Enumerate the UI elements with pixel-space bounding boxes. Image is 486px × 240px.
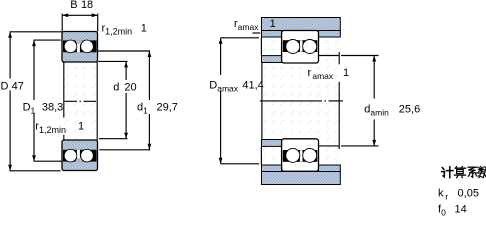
housing top bar	[262, 18, 341, 31]
svg-text:1: 1	[270, 18, 276, 30]
dimension D: line with arrows, gap for text	[9, 32, 11, 79]
ball row top	[64, 40, 77, 53]
dimension d1: extension lines	[97, 50, 150, 52]
shaft shoulder top left	[262, 56, 282, 63]
abutment gap boundary bottom left	[260, 146, 262, 165]
housing shoulder top left	[262, 31, 282, 38]
hatch field	[262, 37, 340, 165]
dimension D_amax: extension lines	[221, 37, 259, 39]
svg-text:f014: f014	[438, 203, 467, 216]
mounted cage bar bottom	[300, 150, 303, 161]
ball row bottom	[64, 149, 77, 162]
raceway gap top	[63, 40, 97, 52]
dimension d: line with arrows	[125, 61, 127, 80]
phantom shoulder line top right	[319, 55, 339, 57]
svg-text:47: 47	[12, 81, 24, 93]
svg-text:d129,7: d129,7	[137, 101, 178, 115]
bore line left	[63, 62, 65, 118]
svg-text:25,6: 25,6	[399, 103, 420, 115]
housing bottom bar	[262, 172, 341, 185]
mounted ball row top	[286, 40, 300, 54]
dimension D_amax: line with arrows	[220, 38, 222, 75]
dimension d_amin: extension lines	[341, 55, 379, 57]
bore line right	[96, 62, 98, 140]
mounted cage bar top	[300, 40, 303, 51]
shaft right end line	[338, 52, 340, 64]
raceway wedge bottom	[75, 157, 82, 161]
housing shoulder bottom left	[262, 165, 282, 172]
centerline right drawing	[260, 100, 322, 102]
dimension d: extension lines	[98, 60, 127, 62]
svg-text:D: D	[1, 81, 9, 93]
svg-text:D138,3: D138,3	[23, 101, 64, 115]
dimension d1: line with arrows	[148, 51, 150, 100]
svg-text:Damax41,4: Damax41,4	[209, 80, 263, 94]
hanzi xi (system)	[468, 167, 478, 177]
leader r_amax top	[253, 32, 261, 34]
bore hatch rect between halves	[63, 62, 97, 140]
housing shoulder bottom right	[319, 165, 341, 172]
dimension d_amin: line with arrows	[373, 56, 375, 99]
svg-text:ramax: ramax	[234, 18, 259, 32]
cage bar top	[77, 44, 80, 52]
svg-text:kr0,05: kr0,05	[438, 187, 479, 201]
svg-text:1: 1	[343, 67, 349, 79]
svg-text:damin: damin	[364, 103, 389, 117]
abutment gap boundary top left	[260, 38, 262, 56]
centerline left drawing	[65, 100, 98, 102]
mounted rings top	[282, 31, 319, 64]
bearing top half section	[62, 32, 98, 63]
bearing bottom half section	[62, 140, 98, 171]
hanzi suan (count)	[454, 166, 465, 177]
dimension B: dimension line with arrows	[62, 14, 97, 16]
svg-text:B18: B18	[70, 0, 93, 11]
mounted raceway gap bottom	[283, 150, 318, 162]
shaft shoulder bottom left	[262, 140, 282, 147]
housing shoulder top right	[319, 31, 341, 38]
dimension D1: extension lines	[34, 39, 61, 41]
raceway gap bottom	[63, 150, 97, 162]
ring sections bottom	[62, 140, 98, 171]
svg-text:d20: d20	[113, 82, 136, 94]
raceway wedge top	[75, 40, 82, 44]
hanzi shu (number), clipped at right edge	[478, 167, 486, 178]
chinese title: 计算系数 drawn as strokes	[442, 166, 486, 177]
mounted ball row bottom	[286, 148, 300, 162]
mounted raceway gap top	[283, 40, 318, 52]
mounted rings bottom	[282, 139, 319, 172]
bearing mounted top half	[282, 31, 319, 64]
cage bar bottom	[77, 150, 80, 158]
bearing mounted bottom half	[282, 139, 319, 172]
shaft left end line	[261, 63, 263, 139]
ring sections top	[62, 32, 98, 63]
phantom shoulder line bottom right	[319, 145, 339, 147]
dimension D: extension lines	[10, 31, 62, 33]
svg-text:r1,2min1: r1,2min1	[102, 22, 147, 36]
dimension B: extension lines	[61, 14, 63, 32]
hanzi ji (calculate)	[442, 167, 453, 178]
dimension D1: line with arrows	[33, 40, 35, 100]
